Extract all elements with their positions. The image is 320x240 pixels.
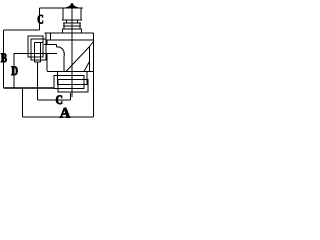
neck verticals xyxy=(66,20,68,23)
bottom fitting rect2 xyxy=(54,76,84,89)
washer outer verticals xyxy=(62,29,64,33)
bore top line xyxy=(44,44,57,46)
flange stud xyxy=(50,33,52,40)
body bottom line xyxy=(47,71,94,73)
bore step vertical xyxy=(56,45,58,48)
chamber wall vertical xyxy=(63,56,65,72)
wire D horizontal y53.5 xyxy=(14,53,44,55)
wire C-bottom horizontal y100 xyxy=(38,99,71,101)
svg-text:B: B xyxy=(1,51,7,65)
cap bottom line xyxy=(62,19,82,21)
outlet diagonal corner xyxy=(90,42,94,47)
svg-text:D: D xyxy=(11,63,18,78)
wire A branch vertical x22.5 xyxy=(22,88,24,117)
dome cap top xyxy=(65,3,79,8)
wire D vertical xyxy=(13,54,15,89)
wire C-top vertical xyxy=(39,8,41,30)
wire B vertical left xyxy=(3,30,5,88)
flange top line xyxy=(45,32,94,34)
cap rect xyxy=(63,8,81,20)
flange left edge xyxy=(45,33,47,40)
wire top horizontal to cap xyxy=(40,7,84,9)
wire drain vertical x37.5 xyxy=(37,62,39,100)
wire A horizontal y117 xyxy=(23,116,94,118)
chamber curve xyxy=(60,47,65,56)
svg-text:A: A xyxy=(60,105,71,121)
wire C-bottom vertical up xyxy=(70,93,72,100)
body left edge lower xyxy=(46,54,48,72)
outlet short diagonal xyxy=(84,62,90,72)
washer verticals xyxy=(63,23,65,29)
bore step horizontal xyxy=(57,46,60,48)
svg-text:C: C xyxy=(37,12,43,27)
washer line y26 xyxy=(63,25,81,27)
outlet diagonal main xyxy=(66,47,90,72)
left fitting tube verticals xyxy=(34,43,36,63)
bottom fitting rect3 xyxy=(58,80,88,93)
wire horizontal y30 xyxy=(4,29,40,31)
outlet right vertical xyxy=(89,47,91,72)
left fitting outer rect xyxy=(28,36,43,57)
bore bottom line xyxy=(43,53,57,55)
washer line y29 xyxy=(62,28,82,30)
body left edge upper xyxy=(46,40,48,45)
centerline stem xyxy=(71,8,73,97)
left fitting offset rect xyxy=(31,39,46,60)
left fitting tube top xyxy=(35,42,44,44)
flange bottom line xyxy=(46,39,94,41)
wire horizontal y88 xyxy=(4,87,55,89)
bottom fitting rect1 xyxy=(58,72,88,85)
washer line y23 xyxy=(63,22,81,24)
wire right vertical x93.5 xyxy=(93,33,95,117)
left fitting tube bottom xyxy=(35,61,41,63)
